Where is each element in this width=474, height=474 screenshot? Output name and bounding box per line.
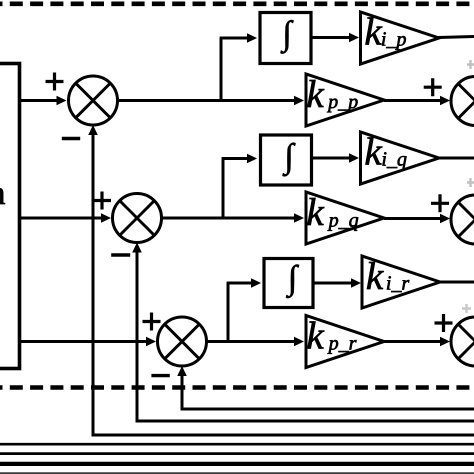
dashed boundary bottom	[0, 385, 474, 390]
summing junction S5 (right q)	[451, 195, 474, 244]
summing junction S3	[158, 317, 207, 366]
integral symbol U3	[286, 265, 299, 298]
integral symbol U1	[281, 20, 294, 53]
integrator U1 (p)	[260, 13, 311, 64]
summing junction S2	[113, 194, 162, 243]
subscript i_q of Ki_q	[383, 152, 407, 170]
minus sign at S2	[111, 253, 130, 256]
feedback bus wire p	[92, 434, 474, 437]
plant block P1 (cut off at left)	[0, 64, 20, 369]
summing junction S6 (right r)	[451, 317, 474, 366]
summing junction S4 (right p)	[451, 77, 474, 126]
label k of Ki_p	[366, 17, 383, 44]
subscript p_q of Kp_q	[327, 217, 358, 231]
plus sign remnant above S4	[467, 60, 474, 69]
feedback bus wire q	[136, 420, 474, 423]
plus sign at S4	[424, 78, 442, 96]
gain Kp_r triangle	[306, 316, 384, 368]
subscript i_r of Ki_r	[387, 276, 409, 292]
plus sign at S5	[431, 194, 449, 212]
integral symbol U2	[283, 143, 296, 176]
wire branch up to integrator U3	[227, 283, 230, 342]
plus sign remnant above S5	[467, 178, 474, 187]
wire Kp_r to S6	[384, 340, 442, 343]
subscript p_p of Kp_p	[327, 99, 358, 113]
feedback bus wire r	[181, 408, 474, 411]
integrator U2 (q)	[261, 135, 312, 185]
label k of Kp_p	[308, 80, 325, 107]
feedback wire into S2	[136, 251, 139, 422]
plus sign at S2	[93, 192, 111, 210]
plus sign at S6	[435, 314, 453, 332]
bus line 1	[0, 443, 474, 446]
wire Ki_p output	[438, 37, 474, 38]
gain Ki_p triangle	[361, 12, 440, 64]
gain Ki_r triangle	[362, 256, 440, 308]
wire branch up to integrator U1	[220, 38, 223, 101]
label k of Ki_q	[366, 137, 383, 164]
subscript i_p of Ki_p	[382, 32, 406, 50]
label k of Ki_r	[367, 262, 384, 289]
label k of Kp_r	[308, 321, 325, 348]
dashed boundary top	[0, 1, 474, 6]
wire Ki_q output	[438, 157, 474, 160]
plus sign at S1	[46, 73, 64, 91]
plant label n (cut off)	[0, 188, 5, 204]
gain Kp_p triangle	[306, 74, 384, 126]
wire S1 output	[118, 99, 297, 102]
wire plant to S1	[19, 99, 58, 102]
plus sign remnant above S6	[462, 304, 471, 313]
wire Ki_r output	[439, 281, 474, 284]
wire S2 output	[162, 217, 297, 220]
minus sign at S3	[151, 374, 169, 377]
wire Kp_p to S4	[384, 99, 442, 102]
wire U2 to Ki_q	[312, 157, 352, 160]
label k of Kp_q	[308, 198, 325, 225]
plus sign at S3	[143, 313, 161, 331]
feedback wire into S1	[92, 133, 95, 435]
gain Ki_q triangle	[361, 132, 440, 184]
bus line 2	[0, 452, 474, 455]
wire U3 to Ki_r	[313, 282, 353, 285]
bottom edge line (cut off)	[0, 472, 474, 474]
gain Kp_q triangle	[306, 192, 384, 244]
summing junction S1	[69, 76, 118, 125]
wire branch up to integrator U2	[222, 159, 225, 219]
wire Kp_q to S5	[384, 217, 442, 220]
integrator U3 (r)	[264, 259, 313, 308]
feedback wire into S3	[181, 374, 184, 409]
wire plant to S2	[19, 217, 103, 220]
minus sign at S1	[62, 137, 80, 140]
subscript p_r of Kp_r	[327, 340, 356, 354]
wire S3 output	[207, 340, 297, 343]
wire plant to S3	[19, 340, 148, 343]
wire U1 to Ki_p	[311, 36, 351, 39]
bottom border band	[0, 462, 474, 466]
